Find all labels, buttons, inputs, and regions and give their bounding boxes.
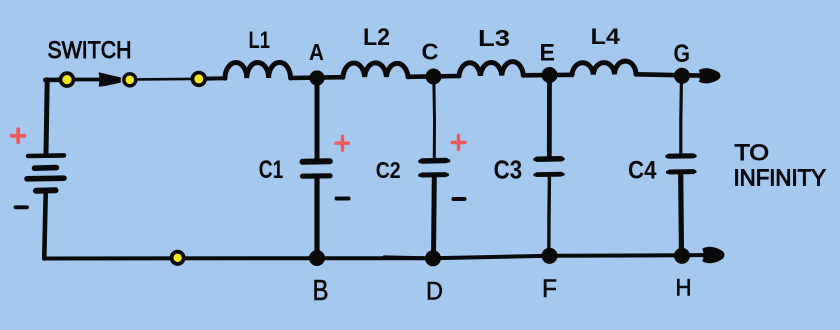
battery minus label — [16, 205, 28, 209]
capacitor C3 branch wire upper — [547, 75, 552, 156]
switch contact dot 3 — [191, 71, 207, 87]
wire: L4 to top arrowhead through node G — [636, 74, 701, 75]
wire: left vertical from battery to bottom wire — [44, 193, 45, 259]
battery plus label — [12, 129, 25, 142]
svg-text:E: E — [540, 40, 556, 67]
svg-text:C1: C1 — [259, 156, 284, 184]
capacitor C2 — [420, 159, 449, 163]
capacitor C3 — [535, 157, 563, 161]
svg-text:L2: L2 — [363, 24, 390, 51]
wire: left vertical from top wire to battery — [46, 80, 47, 154]
svg-text:D: D — [426, 278, 443, 306]
C2 minus label — [454, 197, 465, 201]
capacitor C1 branch wire upper — [315, 78, 320, 159]
node F — [542, 248, 558, 264]
inductor L2 — [343, 63, 408, 77]
junction dot on bottom wire (yellow contact) — [170, 250, 186, 266]
top arrowhead (to infinity) — [699, 68, 721, 83]
svg-text:F: F — [542, 275, 557, 303]
svg-text:INFINITY: INFINITY — [734, 164, 827, 190]
node E — [542, 67, 558, 83]
node C — [426, 69, 442, 85]
node G — [674, 68, 690, 84]
capacitor C1 — [303, 158, 330, 165]
svg-text:SWITCH: SWITCH — [48, 37, 132, 64]
wire: L3 to L4 through node E — [523, 73, 572, 78]
C1 minus label — [337, 197, 349, 201]
inductor L4 — [572, 61, 636, 75]
capacitor C2 branch wire upper (thin) — [432, 77, 436, 159]
svg-text:C3: C3 — [494, 157, 522, 185]
inductor L1 — [225, 62, 291, 78]
wire — [75, 78, 101, 82]
svg-text:C4: C4 — [628, 157, 657, 185]
svg-text:C: C — [422, 39, 439, 65]
capacitor C2 branch wire lower — [431, 177, 437, 258]
inductor L3 — [459, 62, 523, 76]
wire — [206, 76, 225, 80]
wire: bottom horizontal — [44, 255, 703, 258]
svg-text:L3: L3 — [478, 25, 510, 51]
capacitor C3 branch wire lower (thin) — [547, 177, 551, 256]
wire: L2 to L3 through node C — [408, 74, 459, 79]
node B — [309, 250, 325, 266]
C1 plus label — [336, 136, 349, 150]
switch contact dot 1 — [59, 71, 76, 88]
capacitor C4 branch wire upper (thin) — [679, 76, 683, 153]
svg-text:L1: L1 — [249, 27, 271, 54]
battery B1 — [27, 155, 64, 190]
switch contact dot 2 — [122, 72, 137, 87]
svg-text:L4: L4 — [591, 24, 621, 49]
switch arrow (current direction) — [99, 72, 121, 87]
svg-text:TO: TO — [735, 140, 770, 165]
wire: thin segment between contacts — [138, 78, 191, 81]
wire: L1 to L2 through node A — [291, 75, 344, 80]
svg-text:H: H — [676, 275, 692, 302]
bottom arrowhead (to infinity) — [702, 247, 724, 263]
C2 plus label — [452, 135, 465, 149]
capacitor C4 — [667, 154, 695, 158]
node D — [425, 250, 441, 266]
capacitor C4 branch wire lower — [678, 174, 684, 256]
svg-text:G: G — [674, 40, 691, 68]
wire overdraw sketch stroke on bottom wire — [384, 255, 424, 258]
svg-text:C2: C2 — [376, 157, 401, 183]
svg-text:B: B — [313, 275, 329, 307]
capacitor C1 branch wire lower — [314, 179, 319, 259]
svg-text:A: A — [309, 39, 324, 65]
wire: top horizontal left segment with switch — [45, 78, 60, 83]
node A — [309, 70, 324, 85]
node H — [674, 248, 690, 264]
